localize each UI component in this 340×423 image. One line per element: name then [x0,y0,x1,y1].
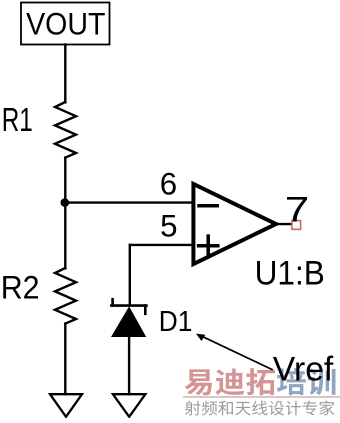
svg-text:7: 7 [285,191,310,230]
svg-text:D1: D1 [159,306,193,338]
svg-text:R2: R2 [1,270,40,306]
svg-text:Vref: Vref [273,350,334,388]
svg-text:R1: R1 [2,102,33,139]
svg-text:U1:B: U1:B [255,255,325,293]
svg-text:VOUT: VOUT [26,6,105,41]
svg-text:5: 5 [160,209,177,244]
svg-text:6: 6 [160,167,177,202]
